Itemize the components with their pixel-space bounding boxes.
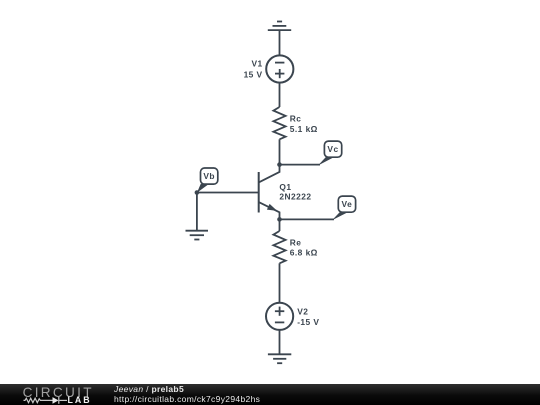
svg-text:LAB: LAB (68, 395, 92, 405)
node junction at emitter (277, 217, 282, 222)
svg-text:Rc: Rc (290, 114, 302, 124)
resistor Re (273, 231, 285, 263)
svg-text:5.1 kΩ: 5.1 kΩ (290, 124, 318, 134)
svg-text:Vc: Vc (327, 144, 338, 154)
svg-text:Vb: Vb (203, 171, 215, 181)
wire V1 to Rc (279, 83, 281, 107)
wire collector node to Vc flag (280, 164, 321, 166)
wire Vb node to left ground (196, 193, 198, 231)
svg-text:V1: V1 (251, 58, 262, 68)
svg-text:-15 V: -15 V (297, 317, 319, 327)
svg-text:Q1: Q1 (279, 182, 291, 192)
resistor Rc (273, 107, 285, 139)
wire top ground to V1 (279, 30, 281, 55)
node junction at collector (277, 162, 282, 167)
CircuitLab logo (0, 384, 110, 405)
svg-text:V2: V2 (297, 307, 308, 317)
voltage source V2 (266, 303, 293, 330)
ground (left, at base) (186, 231, 209, 240)
wire Re to V2 (279, 263, 281, 302)
wire Vb node to base (197, 192, 259, 194)
node flag Ve (332, 196, 356, 220)
svg-text:Re: Re (290, 237, 302, 247)
wire V2 to bottom ground (279, 330, 281, 354)
transistor Q1 (259, 165, 280, 220)
wire emitter node to Re (279, 219, 281, 231)
svg-text:6.8 kΩ: 6.8 kΩ (290, 248, 318, 258)
node flag Vc (318, 141, 342, 165)
wire emitter node to Ve flag (280, 218, 335, 220)
ground (top power rail symbol) (268, 22, 291, 31)
ground (bottom) (268, 354, 291, 363)
svg-text:15 V: 15 V (244, 70, 263, 80)
svg-text:2N2222: 2N2222 (279, 192, 311, 202)
footer bar (0, 384, 540, 405)
wire Rc to collector node (279, 139, 281, 164)
node junction at base (195, 190, 200, 195)
node flag Vb (197, 168, 218, 193)
svg-text:Ve: Ve (342, 199, 353, 209)
footer title text (114, 384, 260, 404)
voltage source V1 (266, 55, 293, 82)
